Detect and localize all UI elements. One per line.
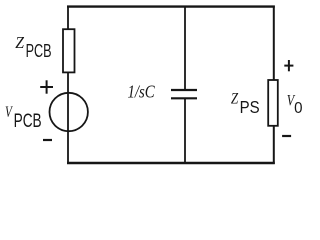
wire middle upper <box>184 6 186 91</box>
wire top <box>67 5 275 7</box>
label Z_PS <box>231 90 260 117</box>
wire middle lower <box>184 98 186 164</box>
svg-text:PCB: PCB <box>14 110 42 132</box>
svg-text:0: 0 <box>294 100 303 117</box>
svg-text:Z: Z <box>15 32 25 52</box>
svg-text:1/sC: 1/sC <box>128 81 156 102</box>
wire right upper <box>273 6 275 81</box>
impedance box Z_PS <box>268 80 278 126</box>
svg-text:PCB: PCB <box>26 42 52 62</box>
impedance box Z_PCB <box>63 29 75 72</box>
wire bottom <box>67 162 275 164</box>
svg-text:V: V <box>5 103 13 120</box>
svg-text:PS: PS <box>240 98 260 117</box>
plus sign (V0 +) <box>284 60 293 71</box>
svg-text:Z: Z <box>231 90 239 108</box>
plus sign (V_PCB +) <box>40 80 53 93</box>
label V0 <box>287 92 303 117</box>
minus sign (V0 -) <box>282 135 291 137</box>
minus sign (V_PCB -) <box>43 139 52 141</box>
wire right lower <box>273 126 275 164</box>
wire left upper <box>67 6 69 31</box>
capacitor C plates <box>171 90 197 98</box>
wire left lower (through source) <box>67 72 69 164</box>
label V_PCB <box>5 103 42 132</box>
label Z_PCB <box>15 32 51 62</box>
voltage source V_PCB (circle) <box>49 93 87 131</box>
